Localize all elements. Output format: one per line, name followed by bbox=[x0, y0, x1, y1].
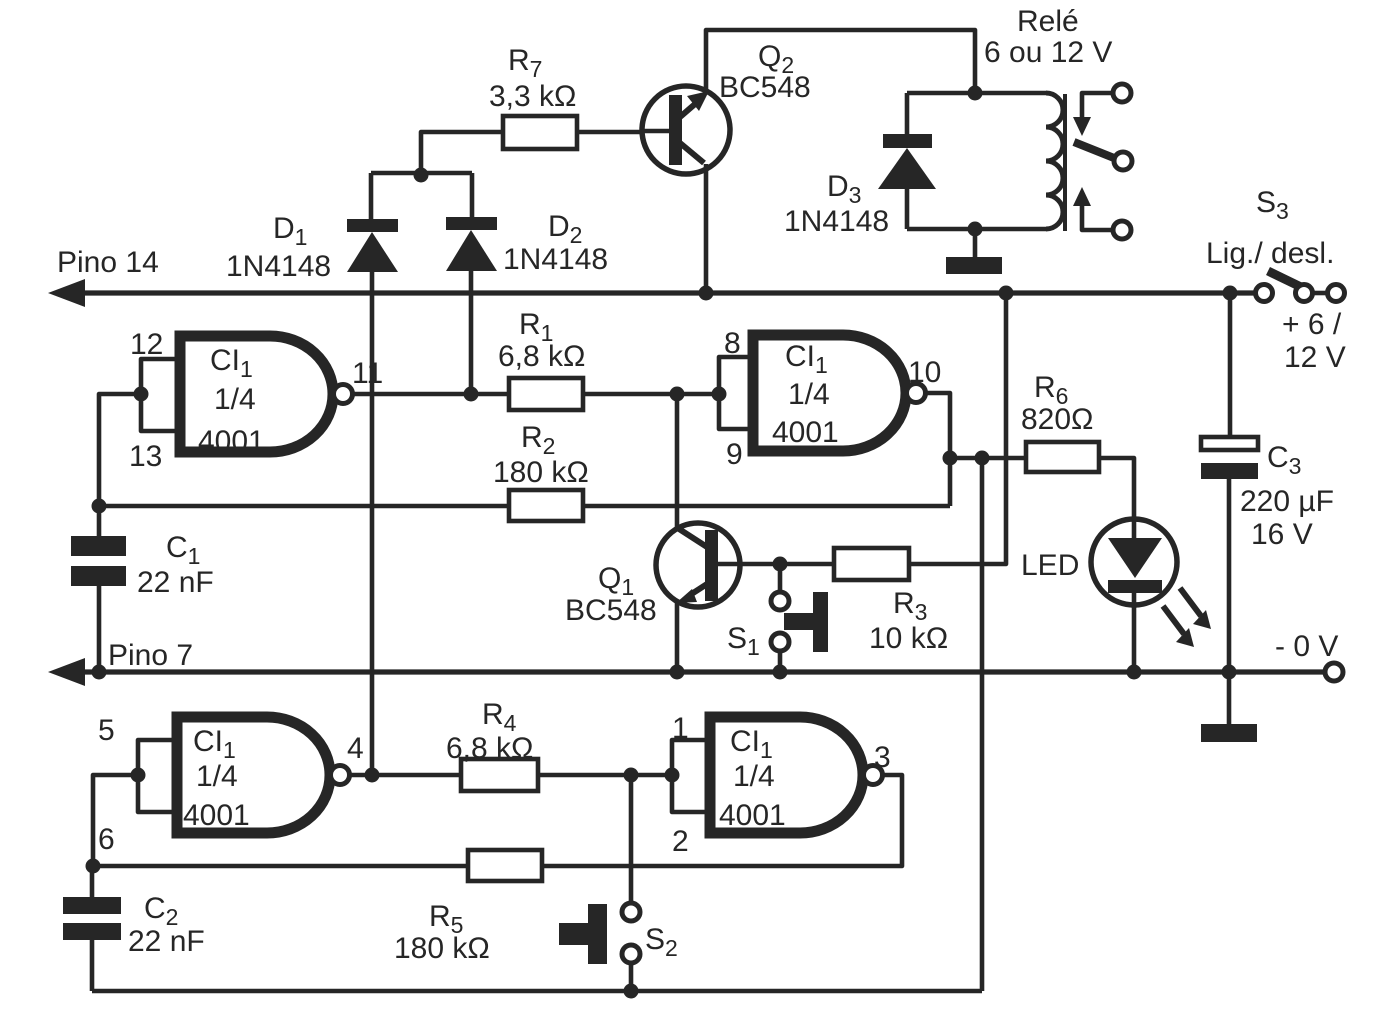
wire LED cathode inner bbox=[1132, 590, 1137, 608]
gate CI1d body bbox=[710, 717, 863, 833]
wire output node down to bottom rail bbox=[980, 458, 985, 991]
wire S1 top stub bbox=[778, 564, 783, 593]
wire R7 left to diode junction bbox=[421, 132, 503, 176]
wire Pino 14 rail bbox=[60, 290, 1255, 295]
node S1 junction bbox=[773, 557, 788, 572]
relay contact NC wire bbox=[1082, 93, 1113, 120]
node S2 bottom junction bbox=[624, 984, 639, 999]
transistor Q2 collector diagonal bbox=[680, 143, 704, 163]
svg-text:6: 6 bbox=[98, 823, 115, 856]
gate CI1a output bubble bbox=[334, 385, 353, 404]
wire D1 top stub bbox=[369, 173, 374, 219]
node diode junction bbox=[414, 168, 429, 183]
node CI1d bracket junction bbox=[665, 768, 680, 783]
capacitor C1 bottom plate bbox=[71, 566, 126, 586]
node S1 0V junction bbox=[773, 665, 788, 680]
led triangle bbox=[1108, 538, 1162, 578]
wire Q1 base to R3 bbox=[718, 562, 834, 567]
svg-text:13: 13 bbox=[129, 440, 162, 473]
wire CI1c out to R4 bbox=[350, 773, 461, 778]
svg-text:1/4: 1/4 bbox=[788, 378, 830, 411]
node R6 branch junction bbox=[975, 451, 990, 466]
svg-text:1N4148: 1N4148 bbox=[784, 205, 889, 238]
capacitor C2 bottom plate bbox=[63, 923, 121, 940]
node relay top junction bbox=[968, 86, 983, 101]
svg-text:2: 2 bbox=[672, 825, 689, 858]
svg-text:+ 6 /: + 6 / bbox=[1282, 308, 1342, 341]
svg-text:6 ou 12 V: 6 ou 12 V bbox=[984, 36, 1112, 69]
relay core line bbox=[1063, 94, 1067, 231]
svg-text:220 µF: 220 µF bbox=[1240, 485, 1334, 518]
svg-text:11: 11 bbox=[352, 357, 383, 390]
wire D2 top stub bbox=[470, 173, 475, 217]
relay contact NC terminal bbox=[1113, 84, 1131, 102]
wire Pino 7 rail bbox=[60, 669, 1325, 674]
resistor R1 bbox=[509, 378, 583, 410]
resistor R3 bbox=[834, 548, 909, 580]
svg-text:3: 3 bbox=[874, 741, 891, 774]
wire D2 anode down to R1 wire bbox=[469, 271, 474, 394]
node relay bottom junction bbox=[968, 222, 983, 237]
wire C3 top bbox=[1228, 293, 1233, 437]
node LED 0V junction bbox=[1127, 665, 1142, 680]
gate CI1d output bubble bbox=[864, 766, 883, 785]
wire LED to 0V bbox=[1132, 605, 1137, 672]
svg-text:1: 1 bbox=[672, 712, 689, 745]
gate CI1a body bbox=[180, 336, 333, 452]
wire S2 drop bbox=[629, 775, 634, 903]
svg-text:LED: LED bbox=[1021, 549, 1079, 582]
led arrow 2 head bbox=[1193, 610, 1211, 629]
gate CI1c input bracket bbox=[138, 740, 177, 812]
relay contact NC arrow bbox=[1073, 117, 1091, 136]
wire S3 link bbox=[1312, 291, 1328, 296]
svg-text:4001: 4001 bbox=[198, 425, 265, 458]
transistor Q1 emitter diagonal bbox=[690, 584, 707, 595]
svg-text:9: 9 bbox=[726, 438, 743, 471]
diode D1 triangle bbox=[347, 232, 398, 272]
switch S3 mid terminal bbox=[1296, 285, 1313, 302]
diode D2 triangle bbox=[446, 230, 497, 271]
node C1 0V junction bbox=[92, 665, 107, 680]
resistor R6 bbox=[1026, 442, 1099, 472]
wire LED anode inner bbox=[1132, 519, 1137, 541]
wire Q1 collector up bbox=[675, 394, 680, 529]
node Q2 rail junction bbox=[699, 286, 714, 301]
resistor R5 bbox=[468, 850, 542, 881]
svg-text:4: 4 bbox=[347, 732, 364, 765]
ground C3 bbox=[1201, 724, 1257, 742]
gate CI1b output bubble bbox=[907, 384, 926, 403]
wire S1 bottom stub bbox=[778, 650, 783, 672]
relay contact NO arrow bbox=[1073, 187, 1091, 206]
transistor Q1 collector diagonal bbox=[676, 527, 707, 547]
transistor Q2 emitter arrow bbox=[687, 91, 709, 111]
resistor R4 bbox=[461, 759, 538, 791]
wire Q2 top to relay bbox=[706, 30, 975, 94]
wire C3 ground stem bbox=[1227, 672, 1232, 725]
node +V R3 junction bbox=[999, 286, 1014, 301]
node Q1 collector junction bbox=[670, 387, 685, 402]
wire relay ground stem bbox=[973, 229, 978, 258]
wire R4 to CI1d input bbox=[538, 773, 672, 778]
gate CI1b input bracket bbox=[719, 357, 753, 429]
switch S2 bottom contact bbox=[622, 945, 640, 963]
diode D3 triangle bbox=[878, 148, 936, 189]
relay contact NO terminal bbox=[1113, 221, 1131, 239]
node D2 anode junction bbox=[464, 387, 479, 402]
svg-text:BC548: BC548 bbox=[565, 594, 657, 627]
wire R6 to LED bbox=[1099, 458, 1134, 519]
wire CI1a out to R1 bbox=[353, 392, 509, 397]
led circle bbox=[1091, 519, 1177, 605]
capacitor C3 minus plate bbox=[1201, 463, 1258, 479]
led arrow 1 bbox=[1163, 606, 1184, 634]
diode D3 cathode bar bbox=[883, 134, 932, 148]
wire CI1c input to C2 bbox=[93, 775, 138, 866]
wire Q2 bottom to rail bbox=[704, 164, 709, 293]
gate CI1a input bracket bbox=[141, 359, 180, 431]
wire relay bottom bbox=[907, 227, 1046, 232]
wire +V to R3 bbox=[909, 293, 1006, 564]
svg-text:12: 12 bbox=[130, 328, 163, 361]
svg-text:Pino 14: Pino 14 bbox=[57, 246, 159, 279]
wire R7 right to Q2 base bbox=[577, 130, 668, 135]
ground relay bbox=[946, 257, 1002, 274]
node R2 left junction bbox=[92, 499, 107, 514]
gate CI1c output bubble bbox=[331, 766, 350, 785]
wire D3 branch bbox=[905, 93, 910, 134]
led arrow 2 bbox=[1180, 588, 1201, 616]
wire R5 row left bbox=[93, 864, 468, 869]
relay common terminal bbox=[1114, 152, 1132, 170]
svg-text:1N4148: 1N4148 bbox=[503, 243, 608, 276]
node C3 0V junction bbox=[1222, 665, 1237, 680]
svg-text:180 kΩ: 180 kΩ bbox=[394, 932, 490, 965]
svg-text:6,8 kΩ: 6,8 kΩ bbox=[446, 732, 533, 765]
wire R1 to CI1b input bbox=[583, 392, 719, 397]
svg-text:10 kΩ: 10 kΩ bbox=[869, 622, 948, 655]
switch S2 plunger stem bbox=[559, 923, 589, 945]
capacitor C1 top plate bbox=[71, 536, 126, 556]
switch S1 plunger stem bbox=[784, 613, 814, 630]
wire CI1d output down to R5 bbox=[542, 775, 902, 866]
wire Q2 base inner bbox=[640, 129, 669, 134]
wire Q1 emitter down bbox=[675, 601, 680, 672]
gate CI1d input bracket bbox=[672, 740, 710, 812]
switch S3 pole bbox=[1256, 285, 1273, 302]
svg-text:1/4: 1/4 bbox=[214, 383, 256, 416]
transistor Q1 base bar bbox=[705, 530, 718, 601]
svg-text:4001: 4001 bbox=[183, 799, 250, 832]
diode D1 cathode bar bbox=[347, 219, 398, 232]
svg-text:1N4148: 1N4148 bbox=[226, 250, 331, 283]
switch S1 top contact bbox=[771, 592, 789, 610]
svg-text:5: 5 bbox=[98, 714, 115, 747]
capacitor C2 top plate bbox=[63, 897, 121, 914]
svg-text:180 kΩ: 180 kΩ bbox=[493, 456, 589, 489]
wire D1-D2 top bbox=[371, 171, 472, 176]
node Q1 emitter 0V junction bbox=[670, 665, 685, 680]
node S2 branch junction bbox=[624, 768, 639, 783]
wire R2 row bbox=[99, 504, 950, 509]
svg-text:22 nF: 22 nF bbox=[137, 566, 214, 599]
node R5 left junction bbox=[86, 859, 101, 874]
transistor Q2 circle bbox=[642, 86, 730, 174]
switch S1 plunger bar bbox=[813, 592, 828, 652]
svg-text:16 V: 16 V bbox=[1251, 518, 1313, 551]
wire C3 bottom bbox=[1227, 479, 1232, 672]
switch S3 lever bbox=[1268, 271, 1301, 287]
arrowhead Pino 14 left bbox=[48, 279, 85, 307]
svg-text:12 V: 12 V bbox=[1284, 341, 1346, 374]
transistor Q2 emitter diagonal bbox=[680, 98, 702, 117]
node D1 anode junction bbox=[365, 768, 380, 783]
diode D2 cathode bar bbox=[446, 217, 497, 230]
svg-text:4001: 4001 bbox=[719, 799, 786, 832]
wire C1 stub top bbox=[97, 506, 102, 536]
node S3 rail junction bbox=[1223, 286, 1238, 301]
node CI1a input junction bbox=[134, 387, 149, 402]
switch S3 right terminal bbox=[1328, 285, 1345, 302]
wire relay top bbox=[907, 91, 1046, 96]
wire CI1a input to C1 bbox=[99, 394, 141, 506]
wire output to R2 wire bbox=[948, 458, 953, 506]
svg-text:1/4: 1/4 bbox=[733, 760, 775, 793]
led arrow 1 head bbox=[1176, 628, 1194, 647]
terminal 0V bbox=[1325, 663, 1343, 681]
node CI1c input junction bbox=[131, 768, 146, 783]
capacitor C3 plus plate bbox=[1201, 437, 1258, 450]
wire C2 stub top bbox=[90, 866, 95, 897]
wire D1 anode down to gate CI1c output bbox=[370, 272, 375, 775]
wire C2 to bottom rail bbox=[90, 940, 95, 991]
resistor R2 bbox=[509, 490, 583, 521]
arrowhead Pino 7 left bbox=[48, 658, 85, 686]
relay armature lever bbox=[1074, 142, 1114, 158]
svg-text:Pino 7: Pino 7 bbox=[108, 639, 193, 672]
svg-text:Lig./ desl.: Lig./ desl. bbox=[1206, 237, 1334, 270]
node CI1b bracket junction bbox=[712, 387, 727, 402]
transistor Q2 base bar bbox=[669, 95, 682, 165]
svg-text:10: 10 bbox=[908, 356, 941, 389]
transistor Q1 circle bbox=[656, 523, 740, 607]
gate CI1b body bbox=[753, 335, 906, 451]
svg-text:1/4: 1/4 bbox=[196, 760, 238, 793]
svg-text:BC548: BC548 bbox=[719, 71, 811, 104]
resistor R7 bbox=[503, 116, 577, 149]
gate CI1c body bbox=[177, 717, 330, 833]
svg-text:22 nF: 22 nF bbox=[128, 925, 205, 958]
svg-text:6,8 kΩ: 6,8 kΩ bbox=[498, 340, 585, 373]
svg-text:8: 8 bbox=[724, 327, 741, 360]
svg-text:3,3 kΩ: 3,3 kΩ bbox=[489, 80, 576, 113]
node CI1b output junction bbox=[943, 451, 958, 466]
wire bottom rail bbox=[92, 989, 982, 994]
transistor Q1 emitter arrow bbox=[676, 589, 697, 603]
svg-text:- 0 V: - 0 V bbox=[1275, 630, 1338, 663]
svg-text:Relé: Relé bbox=[1017, 5, 1079, 38]
svg-text:4001: 4001 bbox=[772, 416, 839, 449]
relay contact NO wire bbox=[1082, 205, 1113, 230]
relay coil bbox=[1046, 93, 1063, 229]
wire D3 anode down bbox=[905, 189, 910, 229]
wire C1 to 0V bbox=[97, 586, 102, 672]
switch S1 bottom contact bbox=[771, 633, 789, 651]
wire CI1b output down bbox=[926, 393, 950, 458]
switch S2 plunger bar bbox=[588, 904, 607, 964]
led cathode bar bbox=[1108, 580, 1162, 593]
wire R6 row bbox=[950, 456, 1026, 461]
wire S2 bottom stub bbox=[629, 962, 634, 991]
switch S2 top contact bbox=[622, 903, 640, 921]
svg-text:820Ω: 820Ω bbox=[1021, 403, 1093, 436]
